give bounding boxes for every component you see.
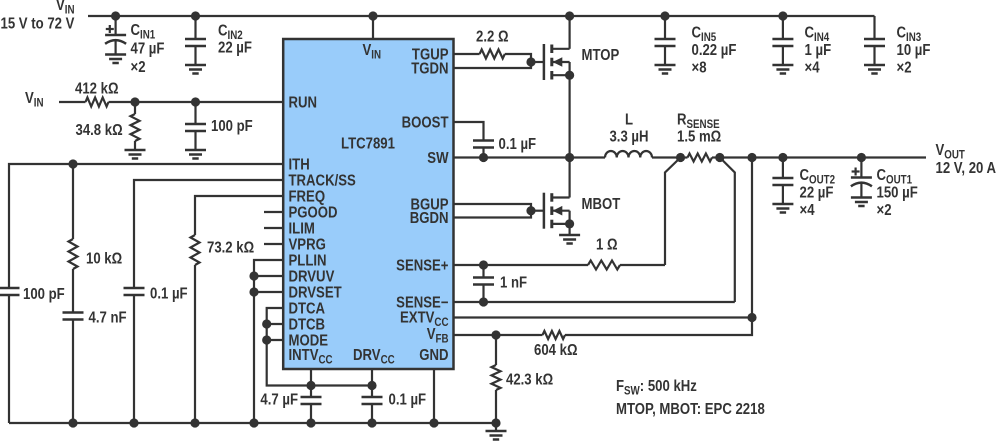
label: pin FREQ bbox=[289, 189, 326, 206]
node: bottom rail junction x134 bbox=[129, 418, 138, 427]
svg-text:BGDN: BGDN bbox=[410, 210, 449, 227]
label: 100 pF ITH bbox=[23, 286, 65, 303]
svg-text:SW: SW bbox=[427, 150, 449, 167]
label: pin VFB bbox=[427, 326, 449, 346]
node: VOUT junction COUT1 bbox=[857, 153, 866, 162]
wire: ground bottom rail bbox=[9, 422, 496, 424]
resistor 2.2 Ohm bbox=[480, 50, 505, 59]
svg-text:VIN: VIN bbox=[56, 0, 75, 17]
ground: bottom rail bbox=[486, 423, 507, 440]
svg-text:412 kΩ: 412 kΩ bbox=[75, 81, 119, 98]
svg-text:4.7 µF: 4.7 µF bbox=[260, 392, 298, 409]
label: pin DTCA bbox=[289, 301, 326, 318]
capacitor COUT2 bbox=[772, 158, 793, 205]
wire: DTCA tie bbox=[267, 308, 372, 386]
pin INTVCC wire bbox=[310, 369, 312, 386]
label: pin INTVCC bbox=[289, 347, 333, 367]
label: pin TGUP bbox=[412, 47, 449, 64]
svg-text:73.2 kΩ: 73.2 kΩ bbox=[207, 240, 254, 257]
node: DRVUV junction bbox=[249, 271, 258, 280]
label: FSW note bbox=[616, 378, 697, 398]
svg-text:FSW: 500 kHz: FSW: 500 kHz bbox=[616, 378, 697, 398]
wire: DTCB tie bbox=[267, 323, 284, 325]
inductor L 3.3uH bbox=[605, 151, 652, 158]
svg-text:150 µF: 150 µF bbox=[877, 185, 918, 202]
label: 0.1 uF boost bbox=[499, 136, 537, 153]
node: DRVCC junction bbox=[367, 381, 376, 390]
wire: kelvin right bbox=[720, 158, 735, 303]
wire: PLLIN tie bbox=[254, 260, 284, 423]
capacitor 4.7 nF bbox=[63, 313, 84, 424]
wire: EXTVCC wire bbox=[454, 316, 753, 318]
svg-text:DRVUV: DRVUV bbox=[289, 269, 335, 286]
resistor RSENSE 1.5 mOhm bbox=[681, 154, 720, 162]
label: pin BGDN bbox=[410, 210, 449, 227]
svg-text:L: L bbox=[625, 112, 633, 129]
node: VOUT junction COUT2 bbox=[778, 153, 787, 162]
node: EXTVCC junction bbox=[747, 313, 756, 322]
label: 42.3 kOhm bbox=[506, 372, 553, 389]
svg-text:DTCB: DTCB bbox=[289, 317, 326, 334]
node: DTCB junction bbox=[262, 319, 271, 328]
wire: VIN to 412k bbox=[59, 101, 86, 103]
svg-text:PLLIN: PLLIN bbox=[289, 253, 327, 270]
node: bottom rail junction x73 bbox=[68, 418, 77, 427]
node: bottom rail junction x254 bbox=[249, 418, 258, 427]
wire: SW node bbox=[454, 156, 606, 158]
label: VIN supply bbox=[56, 0, 75, 17]
svg-text:15 V to 72 V: 15 V to 72 V bbox=[1, 16, 75, 33]
label: CIN4 1uF x4 bbox=[805, 25, 832, 77]
svg-text:MTOP: MTOP bbox=[582, 47, 620, 64]
capacitor CIN1 bbox=[105, 16, 126, 55]
transistor MTOP bbox=[544, 44, 570, 80]
wire: BGUP gate wire bbox=[454, 204, 532, 218]
svg-text:×8: ×8 bbox=[692, 60, 707, 77]
svg-text:4.7 nF: 4.7 nF bbox=[89, 310, 127, 327]
wire: kelvin left bbox=[665, 158, 681, 266]
label: 0.1 uF DRVCC bbox=[389, 392, 427, 409]
svg-text:1 µF: 1 µF bbox=[805, 42, 832, 59]
svg-text:10 kΩ: 10 kΩ bbox=[86, 251, 122, 268]
node: top rail junction CIN4 bbox=[778, 11, 787, 20]
node: bottom rail junction x195 bbox=[190, 418, 199, 427]
wire: ILIM stub bbox=[264, 227, 284, 229]
node: bottom rail junction x311 bbox=[306, 418, 315, 427]
svg-text:×4: ×4 bbox=[800, 202, 815, 219]
svg-text:PGOOD: PGOOD bbox=[289, 205, 338, 222]
svg-text:604 kΩ: 604 kΩ bbox=[534, 342, 578, 359]
node: top rail junction CIN1 bbox=[111, 11, 120, 20]
svg-text:100 pF: 100 pF bbox=[23, 286, 65, 303]
node: VFB divider junction bbox=[491, 330, 500, 339]
svg-text:0.1 µF: 0.1 µF bbox=[389, 392, 427, 409]
label: 4.7 nF bbox=[89, 310, 127, 327]
node: boost cap junction bbox=[479, 153, 488, 162]
label: 34.8 kOhm bbox=[76, 122, 123, 139]
wire: TRACK/SS to cap bbox=[134, 180, 284, 288]
ground: CIN2 bbox=[185, 65, 206, 74]
pin DRVCC wire bbox=[371, 369, 373, 386]
svg-text:BOOST: BOOST bbox=[402, 115, 449, 132]
label: pin ITH bbox=[289, 157, 310, 174]
svg-text:DRVSET: DRVSET bbox=[289, 285, 342, 302]
svg-text:1 Ω: 1 Ω bbox=[596, 237, 618, 254]
label: pin EXTVCC bbox=[400, 310, 449, 330]
wire: VIN input top rail bbox=[88, 15, 875, 17]
svg-text:2.2 Ω: 2.2 Ω bbox=[476, 29, 509, 46]
svg-text:47 µF: 47 µF bbox=[131, 41, 165, 58]
label: pin DRVCC bbox=[353, 347, 395, 367]
capacitor CIN4 bbox=[772, 16, 793, 65]
wire: MBOT drain to SW bbox=[568, 158, 570, 198]
ground: MBOT source bbox=[559, 235, 580, 244]
label: 100 pF run filter bbox=[211, 118, 253, 135]
label: 2.2 Ohm bbox=[476, 29, 509, 46]
svg-text:LTC7891: LTC7891 bbox=[341, 136, 395, 153]
label: pin SENSE+ bbox=[396, 258, 448, 275]
ground: CIN1 bbox=[105, 55, 126, 64]
label: pin GND bottom bbox=[419, 347, 448, 364]
svg-text:×2: ×2 bbox=[897, 60, 912, 77]
svg-text:MTOP, MBOT: EPC 2218: MTOP, MBOT: EPC 2218 bbox=[616, 401, 765, 418]
node: INTVCC junction bbox=[306, 381, 315, 390]
wire: ITH loop bbox=[9, 164, 284, 288]
wire: MTOP source to SW bbox=[568, 75, 570, 157]
node: DRVSET junction bbox=[249, 287, 258, 296]
wire: MODE tie bbox=[267, 339, 284, 341]
label: CIN1 47uF x2 bbox=[131, 22, 165, 76]
label: RSENSE bbox=[677, 112, 721, 146]
svg-text:×2: ×2 bbox=[877, 202, 892, 219]
svg-text:SENSE+: SENSE+ bbox=[396, 258, 448, 275]
svg-text:ILIM: ILIM bbox=[289, 221, 315, 238]
svg-text:VOUT: VOUT bbox=[936, 142, 966, 162]
capacitor 100 pF ITH bbox=[0, 288, 20, 423]
wire: PGOOD stub bbox=[264, 211, 284, 213]
wire: VOUT rail bbox=[720, 156, 926, 158]
svg-text:22 µF: 22 µF bbox=[218, 40, 252, 57]
pin GND wire bbox=[433, 369, 435, 423]
resistor 604 kOhm bbox=[539, 331, 565, 339]
label: pin ILIM bbox=[289, 221, 315, 238]
svg-text:0.1 µF: 0.1 µF bbox=[150, 286, 188, 303]
label: 0.1 uF track bbox=[150, 286, 188, 303]
wire: SENSE- wire bbox=[454, 301, 735, 303]
svg-text:MBOT: MBOT bbox=[582, 196, 621, 213]
node: Rsense left bbox=[676, 153, 685, 162]
pin VIN top bbox=[372, 16, 374, 39]
wire: FREQ to resistor bbox=[195, 196, 284, 235]
node: MODE junction bbox=[262, 335, 271, 344]
label: pin DTCB bbox=[289, 317, 326, 334]
node: bottom rail junction x434 bbox=[429, 418, 438, 427]
node: top rail junction CIN5 bbox=[660, 11, 669, 20]
node: ITH 10k junction bbox=[68, 159, 77, 168]
label: 4.7 uF bbox=[260, 392, 298, 409]
label: pin MODE bbox=[289, 333, 329, 350]
label: VIN run input bbox=[25, 90, 44, 110]
label: CIN5 0.22uF x8 bbox=[692, 25, 737, 77]
node: top rail junction MTOP drain bbox=[565, 11, 574, 20]
ground: CIN4 bbox=[772, 65, 793, 74]
capacitor CIN3 bbox=[864, 16, 885, 65]
capacitor 0.1 uF track bbox=[124, 288, 145, 423]
svg-text:TGDN: TGDN bbox=[411, 61, 448, 78]
label: 10 kOhm bbox=[86, 251, 122, 268]
resistor 412 kOhm bbox=[86, 98, 109, 107]
wire: 2.2R to gate bbox=[454, 54, 532, 68]
node: top rail junction VIN pin bbox=[368, 11, 377, 20]
wire: MBOT source to gnd bbox=[568, 224, 570, 235]
node: MTOP source bbox=[565, 71, 574, 80]
svg-text:RUN: RUN bbox=[289, 95, 318, 112]
label: pin VIN bbox=[363, 42, 382, 62]
wire: DRVSET tie bbox=[254, 291, 284, 293]
node: SENSE+ cap junction bbox=[479, 260, 488, 269]
svg-text:ITH: ITH bbox=[289, 157, 310, 174]
wire: gate lead MTOP bbox=[531, 61, 544, 63]
node: SENSE- cap junction bbox=[479, 297, 488, 306]
capacitor 1 nF sense bbox=[473, 265, 494, 302]
label: MOSFET note bbox=[616, 401, 765, 418]
svg-text:3.3 µH: 3.3 µH bbox=[609, 129, 648, 146]
capacitor 100 pF run filter bbox=[185, 102, 206, 150]
label: pin VPRG bbox=[289, 237, 326, 254]
svg-text:0.22 µF: 0.22 µF bbox=[692, 42, 737, 59]
label: MTOP bbox=[582, 47, 620, 64]
label: CIN3 10uF x2 bbox=[897, 25, 931, 77]
wire: L to Rsense bbox=[652, 156, 681, 158]
svg-text:×2: ×2 bbox=[131, 59, 146, 76]
label: pin BOOST bbox=[402, 115, 449, 132]
label: 412 kOhm bbox=[75, 81, 119, 98]
resistor 34.8 kOhm bbox=[131, 102, 140, 150]
label: 1 Ohm bbox=[596, 237, 618, 254]
wire: DRVUV tie bbox=[254, 275, 284, 277]
label: pin PGOOD bbox=[289, 205, 338, 222]
node: MBOT source bbox=[565, 219, 574, 228]
svg-text:22 µF: 22 µF bbox=[800, 185, 834, 202]
label: pin SW bbox=[427, 150, 449, 167]
label: pin TGDN bbox=[411, 61, 448, 78]
node: VOUT junction EXTVCC bbox=[747, 153, 756, 162]
label: 73.2 kOhm bbox=[207, 240, 254, 257]
op-amp U1 LTC7891 controller IC bbox=[283, 39, 453, 369]
label: CIN2 22uF bbox=[218, 23, 252, 57]
transistor MBOT bbox=[544, 193, 570, 229]
svg-text:1 nF: 1 nF bbox=[500, 275, 527, 292]
wire: 604k to EXTVCC bbox=[565, 318, 752, 336]
node: MTOP gate junction bbox=[526, 57, 535, 66]
label: 1 nF bbox=[500, 275, 527, 292]
svg-text:CIN1: CIN1 bbox=[131, 22, 156, 42]
label: pin PLLIN bbox=[289, 253, 327, 270]
label: VOUT bbox=[936, 142, 997, 177]
node: divider junction bbox=[130, 97, 139, 106]
svg-text:10 µF: 10 µF bbox=[897, 42, 931, 59]
label: pin BGUP bbox=[410, 197, 448, 214]
wire: 412k to RUN pin bbox=[109, 101, 284, 103]
capacitor COUT1 bbox=[851, 158, 872, 198]
label: 604 kOhm bbox=[534, 342, 578, 359]
node: MBOT gate junction bbox=[526, 206, 535, 215]
svg-text:TRACK/SS: TRACK/SS bbox=[289, 173, 357, 190]
svg-text:VIN: VIN bbox=[25, 90, 44, 110]
wire: gate lead MBOT bbox=[531, 210, 544, 212]
svg-text:FREQ: FREQ bbox=[289, 189, 326, 206]
label: 15 V to 72 V bbox=[1, 16, 75, 33]
svg-text:42.3 kΩ: 42.3 kΩ bbox=[506, 372, 553, 389]
ground: 34.8k resistor bbox=[125, 150, 146, 159]
label: LTC7891 bbox=[341, 136, 395, 153]
node: top rail junction CIN2 bbox=[191, 11, 200, 20]
label: L 3.3 uH bbox=[609, 112, 648, 146]
capacitor 0.1 uF boost bbox=[473, 141, 494, 158]
wire: MTOP drain to rail bbox=[568, 16, 570, 49]
node: SW junction bbox=[565, 153, 574, 162]
node: Rsense right bbox=[715, 153, 724, 162]
wire: VPRG stub bbox=[264, 243, 284, 245]
ground: COUT1 bbox=[851, 198, 872, 207]
capacitor CIN5 bbox=[655, 16, 676, 65]
node: bottom rail junction x496 bbox=[491, 418, 500, 427]
capacitor 4.7 uF INTVCC bbox=[301, 386, 322, 424]
svg-text:12 V, 20 A: 12 V, 20 A bbox=[936, 160, 997, 177]
label: COUT1 150uF x2 bbox=[877, 167, 918, 219]
svg-text:100 pF: 100 pF bbox=[211, 118, 253, 135]
ground: 100pF run filter bbox=[185, 150, 206, 159]
ground: COUT2 bbox=[772, 204, 793, 213]
ground: CIN3 bbox=[864, 65, 885, 74]
wire: SENSE+ wire bbox=[454, 264, 589, 266]
label: COUT2 22uF x4 bbox=[800, 167, 836, 219]
capacitor CIN2 bbox=[185, 16, 206, 65]
label: MBOT bbox=[582, 196, 621, 213]
svg-text:DTCA: DTCA bbox=[289, 301, 326, 318]
label: pin RUN bbox=[289, 95, 318, 112]
node: 100pF junction bbox=[191, 97, 200, 106]
svg-text:1.5 mΩ: 1.5 mΩ bbox=[677, 129, 721, 146]
resistor 73.2 kOhm bbox=[191, 235, 200, 423]
svg-text:×4: ×4 bbox=[805, 60, 820, 77]
svg-text:0.1 µF: 0.1 µF bbox=[499, 136, 537, 153]
svg-text:34.8 kΩ: 34.8 kΩ bbox=[76, 122, 123, 139]
wire: VFB wire bbox=[454, 334, 540, 336]
capacitor 0.1 uF DRVCC bbox=[362, 386, 383, 424]
label: pin DRVUV bbox=[289, 269, 335, 286]
label: pin SENSE&#8722; bbox=[396, 295, 448, 312]
resistor 1 Ohm bbox=[588, 261, 620, 270]
label: pin TRACK/SS bbox=[289, 173, 357, 190]
resistor 10 kOhm bbox=[69, 164, 78, 313]
resistor 42.3 kOhm bbox=[492, 335, 501, 423]
wire: 1R to kelvin bbox=[620, 264, 665, 266]
svg-text:VPRG: VPRG bbox=[289, 237, 326, 254]
wire: VOUT to EXTVCC vertical bbox=[751, 158, 753, 318]
label: pin DRVSET bbox=[289, 285, 342, 302]
svg-text:GND: GND bbox=[419, 347, 448, 364]
wire: TGUP gate wire bbox=[454, 53, 480, 55]
node: bottom rail junction x372 bbox=[367, 418, 376, 427]
ground: CIN5 bbox=[655, 65, 676, 74]
wire: BOOST wire bbox=[454, 122, 484, 141]
